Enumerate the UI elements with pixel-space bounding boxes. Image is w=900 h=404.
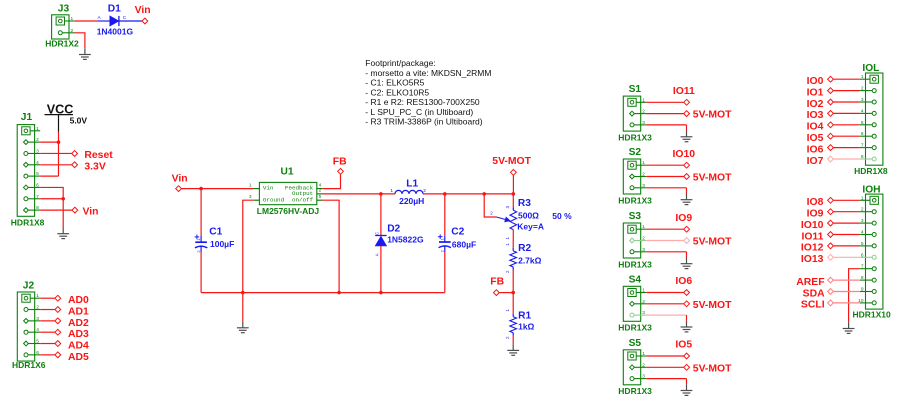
net terminal IO10: [828, 220, 834, 226]
svg-text:1: 1: [36, 126, 39, 132]
wire IOH pin5 to IO12 terminal: [833, 245, 860, 247]
svg-text:AD3: AD3: [68, 329, 89, 340]
wire S4 pin3 to ground: [646, 314, 686, 316]
net terminal 5V-MOT (S5): [684, 364, 690, 370]
svg-text:5V-MOT: 5V-MOT: [693, 173, 732, 184]
net terminal FB (top): [338, 168, 344, 174]
S1 pin 1: [632, 101, 646, 103]
op-amp U1 LM2576HV-ADJ body: [259, 182, 316, 204]
net terminal AD5: [55, 352, 61, 358]
svg-text:- R1 e R2: RES1300-700X250: - R1 e R2: RES1300-700X250: [365, 97, 480, 107]
J1 pin 6: [26, 186, 40, 188]
svg-text:IO11: IO11: [801, 231, 823, 242]
net terminal IO2: [828, 99, 834, 105]
net terminal 5V-MOT (center): [511, 169, 517, 175]
S2 pin 1: [632, 164, 646, 166]
wire J1 pin6/7 net down to ground: [62, 199, 64, 228]
wire S5 pin1 to IO5 terminal: [646, 355, 683, 357]
wire S1 pin1 to IO11 terminal: [646, 101, 683, 103]
svg-text:3: 3: [36, 148, 39, 154]
svg-text:- morsetto a vite: MKDSN_2RMM: - morsetto a vite: MKDSN_2RMM: [365, 68, 491, 78]
net terminal IO7: [828, 156, 834, 162]
svg-text:2: 2: [505, 336, 510, 339]
svg-text:4: 4: [319, 182, 322, 188]
J3 pin 1: [60, 20, 74, 22]
wire 5V-MOT terminal down to node: [512, 175, 514, 194]
S1 pin 3: [632, 124, 646, 126]
svg-text:5: 5: [36, 171, 39, 177]
wire S1 pin2 to 5V-MOT terminal: [646, 113, 683, 115]
svg-text:3: 3: [861, 218, 864, 224]
svg-text:- L SPU_PC_C (in Ultiboard): - L SPU_PC_C (in Ultiboard): [365, 107, 473, 117]
svg-text:IO3: IO3: [807, 110, 824, 121]
junction 5V-MOT / R3: [512, 192, 516, 196]
J2 pin 4: [26, 331, 40, 333]
svg-text:6: 6: [36, 350, 39, 356]
svg-text:1: 1: [390, 188, 393, 194]
wire ground drop: [242, 293, 244, 322]
diode D1 1N4001G: [98, 16, 142, 26]
potentiometer R3 lead top: [512, 194, 514, 207]
svg-text:HDR1X3: HDR1X3: [618, 133, 652, 143]
svg-text:100µF: 100µF: [210, 239, 234, 249]
svg-text:2: 2: [490, 211, 493, 216]
J1 pin 8: [26, 209, 40, 211]
power symbol VCC: [45, 115, 74, 132]
wire S3 pin2 to 5V-MOT terminal: [646, 240, 683, 242]
svg-text:C1: C1: [209, 226, 222, 237]
svg-text:2: 2: [642, 299, 645, 305]
net terminal IO6: [828, 145, 834, 151]
wire J3 pin2 to ground: [75, 33, 85, 49]
svg-text:IO0: IO0: [807, 76, 824, 87]
svg-text:S5: S5: [629, 338, 642, 349]
J2 pin 6: [26, 354, 40, 356]
wire R2 to FB junction: [512, 267, 514, 270]
wire U1 pin3 to bottom rail: [243, 200, 254, 292]
IOH pin 1: [860, 199, 874, 201]
svg-text:J3: J3: [58, 3, 70, 14]
S5 pin 1: [632, 355, 646, 357]
wire VCC vertical J1 pin2 to pin5: [58, 142, 60, 176]
connector S5 (HDR1X3) body: [623, 350, 640, 385]
IOL pin 6: [860, 135, 874, 137]
wire IOH pin10 to SCLI terminal: [833, 302, 860, 304]
wire IOH pin7 to ground: [849, 269, 860, 323]
svg-text:1: 1: [71, 16, 74, 22]
capacitor C1 plus sign: [195, 235, 200, 240]
J2 pin 2: [26, 309, 40, 311]
svg-text:6: 6: [36, 182, 39, 188]
svg-text:J1: J1: [21, 112, 33, 123]
S5 pin 2: [632, 366, 646, 368]
S4 pin 2: [632, 303, 646, 305]
svg-text:IO10: IO10: [673, 149, 696, 160]
svg-text:2.7kΩ: 2.7kΩ: [518, 256, 542, 266]
svg-text:IO11: IO11: [673, 86, 695, 97]
svg-text:2: 2: [36, 137, 39, 143]
IOL pin 4: [860, 112, 874, 114]
IOH pin 10: [860, 302, 874, 304]
svg-text:3: 3: [642, 183, 645, 189]
S3 pin 1: [632, 228, 646, 230]
ground (IOH): [843, 322, 855, 333]
svg-text:4: 4: [861, 108, 864, 114]
svg-text:Vin: Vin: [83, 207, 99, 218]
svg-text:2: 2: [423, 188, 426, 194]
svg-text:1: 1: [505, 237, 510, 240]
svg-text:Ground: Ground: [263, 196, 285, 203]
svg-text:IO1: IO1: [807, 87, 824, 98]
svg-text:7: 7: [36, 194, 39, 200]
svg-text:FB: FB: [333, 157, 347, 168]
IOH pin 7: [860, 268, 874, 270]
connector IOH (HDR1X10) body: [866, 194, 883, 309]
J2 pin 3: [26, 320, 40, 322]
svg-text:L1: L1: [406, 178, 418, 189]
wire S3 pin3 to ground: [646, 251, 686, 253]
capacitor C1 lead bottom: [200, 247, 202, 253]
wire J1 pin7 to vertical: [40, 198, 63, 200]
U1 pin 2 stub: [317, 193, 323, 195]
ground (J3 pin2): [79, 48, 91, 59]
wire Vin terminal to U1 pin1: [182, 188, 254, 190]
wire U1 output to L1: [322, 193, 395, 195]
diode D2 lead top: [380, 194, 382, 236]
net terminal AD4: [55, 341, 61, 347]
net terminal IO9: [828, 209, 834, 215]
svg-text:9: 9: [861, 287, 864, 293]
wire IOH pin8 to AREF terminal: [833, 279, 860, 281]
svg-text:HDR1X3: HDR1X3: [618, 259, 652, 269]
net terminal AD0: [55, 295, 61, 301]
connector IOL (HDR1X8) body: [866, 73, 883, 165]
net terminal 3.3V: [72, 162, 78, 168]
wire J1 pin4 to 3.3V terminal: [40, 164, 71, 166]
wire FB terminal to R1/R2 node: [499, 292, 513, 294]
wire R1 to ground: [512, 333, 514, 336]
svg-text:5: 5: [319, 194, 322, 200]
net terminal SDA: [828, 289, 834, 295]
svg-text:AD2: AD2: [68, 318, 89, 329]
svg-text:1N5822G: 1N5822G: [387, 235, 424, 245]
svg-text:IO9: IO9: [807, 209, 824, 220]
wire J1 pin5 to VCC vertical: [40, 175, 58, 177]
svg-text:D2: D2: [387, 223, 400, 234]
svg-text:S3: S3: [629, 211, 642, 222]
svg-text:3: 3: [861, 97, 864, 103]
wire FB node to R1: [512, 293, 514, 314]
connector J2 (HDR1X6) body: [17, 292, 34, 361]
svg-text:2: 2: [642, 362, 645, 368]
svg-text:1: 1: [642, 288, 645, 294]
net terminal FB (bottom): [494, 290, 500, 296]
svg-text:1: 1: [861, 74, 864, 80]
svg-text:2: 2: [861, 86, 864, 92]
junction L1 / C2: [443, 192, 447, 196]
wire IOH pin3 to IO10 terminal: [833, 222, 860, 224]
IOH pin 6: [860, 256, 874, 258]
svg-text:HDR1X10: HDR1X10: [853, 310, 892, 320]
IOH pin 2: [860, 211, 874, 213]
svg-text:1: 1: [861, 195, 864, 201]
svg-text:1kΩ: 1kΩ: [518, 322, 534, 332]
svg-text:1: 1: [36, 293, 39, 299]
ground (S4): [681, 321, 693, 332]
svg-text:Footprint/package:: Footprint/package:: [365, 58, 435, 68]
potentiometer R3 500ohm body: [510, 210, 517, 229]
ground (S2): [681, 194, 693, 205]
net terminal IO11: [684, 99, 690, 105]
svg-text:Vin: Vin: [263, 185, 274, 192]
svg-text:- C2: ELKO10R5: - C2: ELKO10R5: [365, 87, 429, 97]
svg-text:3.3V: 3.3V: [84, 161, 105, 172]
wire J1 pin8 to Vin terminal: [40, 209, 72, 211]
svg-text:HDR1X8: HDR1X8: [854, 166, 888, 176]
wire IOL pin5 to IO4 terminal: [833, 124, 860, 126]
svg-text:Vin: Vin: [135, 5, 151, 16]
wire R3 to R2: [512, 230, 514, 248]
S3 pin 2: [632, 240, 646, 242]
U1 pin 3 stub: [254, 199, 260, 201]
svg-text:8: 8: [861, 154, 864, 160]
S4 pin 1: [632, 292, 646, 294]
svg-text:6: 6: [861, 252, 864, 258]
svg-text:SDA: SDA: [803, 288, 825, 299]
net terminal AD3: [55, 329, 61, 335]
svg-text:2: 2: [861, 207, 864, 213]
wire IOL pin2 to IO1 terminal: [833, 90, 860, 92]
wire IOL pin3 to IO2 terminal: [833, 101, 860, 103]
connector S1 (HDR1X3) body: [623, 96, 640, 131]
net terminal AD1: [55, 307, 61, 313]
svg-text:HDR1X3: HDR1X3: [618, 323, 652, 333]
IOL pin 8: [860, 158, 874, 160]
wire IOH pin4 to IO11 terminal: [833, 234, 860, 236]
svg-text:HDR1X8: HDR1X8: [11, 218, 45, 228]
svg-text:U1: U1: [281, 166, 294, 177]
S2 pin 2: [632, 176, 646, 178]
svg-text:D1: D1: [108, 3, 121, 14]
S4 pin 3: [632, 314, 646, 316]
net terminal IO4: [828, 122, 834, 128]
wire J2 pin4 to AD3 terminal: [40, 331, 55, 333]
svg-text:AD1: AD1: [68, 307, 89, 318]
J1 pin 2: [26, 141, 40, 143]
junction Vin / C1: [199, 187, 203, 191]
ground (R1): [507, 344, 519, 355]
junction J1 pin7: [61, 197, 65, 201]
svg-text:6: 6: [861, 131, 864, 137]
net terminal IO11: [828, 232, 834, 238]
svg-text:5V-MOT: 5V-MOT: [492, 156, 531, 167]
junction D2 top: [379, 192, 383, 196]
svg-text:VCC: VCC: [47, 102, 74, 116]
ground (S3): [681, 258, 693, 269]
J1 pin 3: [26, 152, 40, 154]
wire S2 pin2 to 5V-MOT terminal: [646, 176, 683, 178]
resistor R1 1kohm body: [510, 317, 517, 333]
diode D2 1N5822G (schottky, cathode up): [375, 236, 386, 246]
svg-text:3: 3: [36, 316, 39, 322]
connector S2 (HDR1X3) body: [623, 159, 640, 194]
svg-text:HDR1X2: HDR1X2: [45, 38, 79, 48]
wire FB terminal to U1 pin4: [322, 174, 340, 188]
svg-text:IO4: IO4: [807, 122, 824, 133]
wire IOL pin7 to IO6 terminal: [833, 147, 860, 149]
svg-text:1: 1: [505, 309, 510, 312]
net terminal IO5: [828, 133, 834, 139]
wire S1 pin3 to ground: [646, 124, 686, 126]
J1 pin 1: [26, 130, 40, 132]
svg-text:3: 3: [249, 194, 252, 200]
svg-text:IO2: IO2: [807, 99, 824, 110]
svg-text:2: 2: [505, 270, 510, 273]
wire S2 pin1 to IO10 terminal: [646, 164, 683, 166]
capacitor C2 lead top: [444, 194, 446, 236]
junction FB / R1 / R2: [511, 291, 515, 295]
capacitor C2 680uF: [439, 242, 451, 248]
svg-text:- C1: ELKO5R5: - C1: ELKO5R5: [365, 78, 424, 88]
wire L1 to 5V-MOT node: [423, 193, 513, 195]
J2 pin 1: [26, 297, 40, 299]
svg-text:5: 5: [861, 241, 864, 247]
svg-text:HDR1X3: HDR1X3: [618, 386, 652, 396]
wire J1 pin3 to Reset terminal: [40, 152, 71, 154]
junction J1 pin2 / VCC: [57, 140, 61, 144]
potentiometer R3 wiper wire: [484, 194, 496, 217]
junction bottom rail / ground drop: [241, 291, 245, 295]
svg-text:AD0: AD0: [68, 295, 89, 306]
svg-text:500Ω: 500Ω: [518, 210, 539, 220]
J2 pin 5: [26, 343, 40, 345]
net terminal AREF: [828, 277, 834, 283]
S3 pin 3: [632, 251, 646, 253]
svg-text:1: 1: [505, 243, 510, 246]
svg-text:IO6: IO6: [675, 276, 692, 287]
net terminal SCLI: [828, 300, 834, 306]
net terminal Reset: [72, 151, 78, 157]
svg-text:IOH: IOH: [862, 185, 880, 196]
svg-text:2: 2: [319, 188, 322, 194]
svg-text:IO13: IO13: [801, 254, 824, 265]
bottom rail wire: [201, 292, 445, 294]
svg-text:220µH: 220µH: [399, 196, 424, 206]
wire J2 pin5 to AD4 terminal: [40, 343, 55, 345]
svg-text:R1: R1: [518, 310, 531, 321]
net terminal AD2: [55, 318, 61, 324]
wire J2 pin6 to AD5 terminal: [40, 354, 55, 356]
svg-text:- R3 TRIM-3386P (in Ultiboard): - R3 TRIM-3386P (in Ultiboard): [365, 117, 482, 127]
wire J2 pin1 to AD0 terminal: [40, 297, 55, 299]
svg-text:5V-MOT: 5V-MOT: [693, 110, 732, 121]
J3 pin 2: [60, 32, 74, 34]
connector S3 (HDR1X3) body: [623, 223, 640, 258]
net terminal IO9: [684, 226, 690, 232]
svg-text:J2: J2: [23, 280, 35, 291]
wire J2 pin2 to AD1 terminal: [40, 309, 55, 311]
note text block: footprint/package list: [365, 58, 491, 126]
svg-text:AD5: AD5: [68, 352, 89, 363]
U1 pin 1 stub: [254, 188, 260, 190]
svg-text:IO7: IO7: [807, 156, 824, 167]
svg-text:3: 3: [505, 206, 510, 209]
svg-text:IO9: IO9: [675, 213, 692, 224]
svg-text:AD4: AD4: [68, 341, 89, 352]
IOH pin 8: [860, 279, 874, 281]
svg-text:Vin: Vin: [172, 174, 188, 185]
svg-text:2: 2: [642, 236, 645, 242]
junction wiper branch: [482, 192, 486, 196]
resistor R2 2.7kohm body: [510, 251, 517, 267]
wire S4 pin1 to IO6 terminal: [646, 292, 683, 294]
svg-text:R3: R3: [518, 198, 531, 209]
net terminal IO13: [828, 254, 834, 260]
connector S4 (HDR1X3) body: [623, 286, 640, 321]
svg-text:Key=A: Key=A: [517, 222, 544, 232]
svg-text:A: A: [375, 253, 380, 256]
svg-text:on/off: on/off: [292, 196, 314, 203]
net terminal Vin (J1 pin8): [72, 207, 78, 213]
svg-text:5V-MOT: 5V-MOT: [693, 363, 732, 374]
svg-text:4: 4: [36, 327, 39, 333]
IOL pin 5: [860, 124, 874, 126]
svg-text:5V-MOT: 5V-MOT: [693, 300, 732, 311]
svg-text:4: 4: [861, 230, 864, 236]
IOL pin 1: [860, 78, 874, 80]
junction D2 bottom: [379, 291, 383, 295]
net terminal 5V-MOT (S1): [684, 111, 690, 117]
svg-text:3: 3: [642, 120, 645, 126]
svg-text:HDR1X3: HDR1X3: [618, 195, 652, 205]
svg-text:S2: S2: [629, 147, 642, 158]
svg-text:AREF: AREF: [796, 277, 824, 288]
svg-text:C: C: [123, 15, 127, 21]
svg-text:C: C: [375, 232, 380, 235]
svg-text:3: 3: [642, 374, 645, 380]
svg-text:5: 5: [861, 120, 864, 126]
svg-text:8: 8: [36, 205, 39, 211]
svg-text:1: 1: [642, 224, 645, 230]
svg-text:7: 7: [861, 143, 864, 149]
capacitor C2 plus sign: [438, 234, 443, 239]
net terminal IO5: [684, 353, 690, 359]
wire S5 pin2 to 5V-MOT terminal: [646, 366, 683, 368]
IOL pin 7: [860, 147, 874, 149]
net terminal 5V-MOT (S2): [684, 174, 690, 180]
svg-text:50 %: 50 %: [552, 211, 572, 221]
svg-text:1: 1: [642, 160, 645, 166]
svg-text:1: 1: [249, 182, 252, 188]
svg-text:R2: R2: [518, 243, 531, 254]
wire IOH pin1 to IO8 terminal: [833, 199, 860, 201]
IOH pin 4: [860, 234, 874, 236]
net terminal IO6: [684, 290, 690, 296]
svg-text:3: 3: [642, 310, 645, 316]
IOH pin 9: [860, 291, 874, 293]
ground (J1): [57, 228, 69, 239]
wire S2 pin3 to ground: [646, 187, 686, 189]
svg-text:1: 1: [642, 97, 645, 103]
net terminal 5V-MOT (S3): [684, 238, 690, 244]
svg-text:HDR1X6: HDR1X6: [12, 360, 46, 370]
svg-text:2: 2: [642, 172, 645, 178]
wire IOL pin6 to IO5 terminal: [833, 135, 860, 137]
ground (S1): [681, 131, 693, 142]
svg-text:1: 1: [642, 351, 645, 357]
net terminal IO8: [828, 197, 834, 203]
svg-text:IOL: IOL: [862, 63, 879, 74]
